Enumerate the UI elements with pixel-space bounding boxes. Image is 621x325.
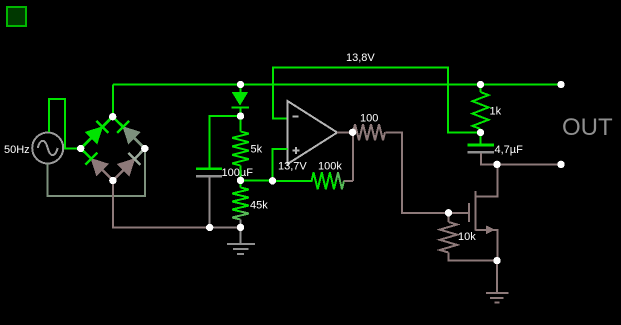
node op-amp output (349, 129, 356, 136)
resistor 100 (353, 124, 385, 140)
wire AC- to bridge right (48, 151, 145, 196)
wire AC+ to bridge (49, 99, 78, 149)
node op-amp + node (269, 177, 276, 184)
svg-text:100µF: 100µF (222, 167, 254, 179)
node C2 bottom / drain (493, 161, 500, 168)
svg-text:100: 100 (360, 112, 378, 124)
node bridge AC-right (141, 145, 148, 152)
svg-text:OUT: OUT (562, 114, 613, 141)
svg-text:13,8V: 13,8V (346, 52, 375, 64)
svg-text:45k: 45k (250, 200, 268, 212)
marker square (7, 7, 26, 26)
svg-text:1k: 1k (490, 106, 502, 118)
node bridge DC-bottom (109, 177, 116, 184)
ground GND1 (240, 227, 242, 243)
diode D2 (bridge right-top) (123, 127, 145, 149)
svg-text:50Hz: 50Hz (4, 144, 30, 156)
wire op-amp output (337, 131, 352, 133)
diode D3 (bridge bottom-left) (91, 159, 113, 181)
wire bridge bottom to ground rail (113, 181, 241, 228)
AC source V1 50Hz (32, 133, 63, 164)
wire 13.8V bus (113, 84, 561, 86)
node source node (493, 257, 500, 264)
node bridge AC-left (77, 145, 84, 152)
node D5 cathode / 5k top (237, 112, 244, 119)
ground GND2 (496, 261, 498, 293)
diode D4 (bridge bottom-right) (113, 159, 135, 181)
wire ground rail (210, 227, 241, 229)
svg-text:4,7µF: 4,7µF (495, 144, 524, 156)
diode D1 (bridge left-top) (81, 117, 113, 149)
node gate node (445, 209, 452, 216)
op-amp U1 (288, 101, 338, 164)
wire to OUT (497, 163, 561, 165)
wire to 100uF top (210, 116, 241, 168)
node C1 bottom / gnd rail (206, 224, 213, 231)
resistor 100k (273, 180, 313, 182)
capacitor C2 4,7uF (480, 133, 482, 145)
diode D5 (240, 85, 242, 93)
wire sense loop to op-amp inverting input (273, 68, 479, 133)
svg-text:5k: 5k (251, 144, 263, 156)
node 45k bottom / gnd (237, 224, 244, 231)
node bridge DC-top (109, 113, 116, 120)
node 1k top / bus (477, 81, 484, 88)
node 1k bottom / C2 top (477, 129, 484, 136)
svg-text:100k: 100k (318, 161, 342, 173)
wire bridge top to 13.8V bus (112, 85, 114, 119)
node bus right post (557, 81, 564, 88)
node bus / D5 anode (237, 81, 244, 88)
resistor 10k (448, 213, 450, 222)
resistor 45k (240, 180, 242, 187)
node OUT post lower (557, 161, 564, 168)
capacitor C1 100uF (196, 167, 222, 170)
node divider mid / ref node (237, 177, 244, 184)
wire op-amp + input (273, 149, 288, 181)
wire 100 to gate (385, 132, 468, 213)
resistor R4 1k (480, 85, 482, 93)
svg-text:10k: 10k (458, 231, 476, 243)
resistor 5k (240, 116, 242, 131)
transistor Q1 MOSFET (475, 164, 497, 196)
svg-text:13,7V: 13,7V (278, 161, 307, 173)
